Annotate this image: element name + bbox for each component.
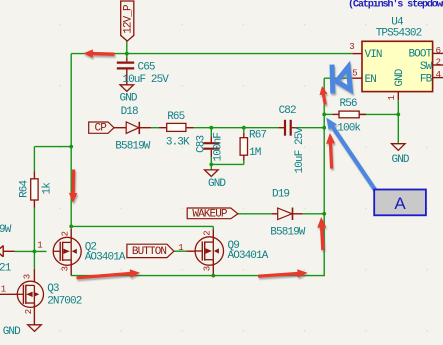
diode D19 (272, 208, 303, 221)
svg-text:CP: CP (95, 123, 108, 135)
wire R56 row (324, 113, 398, 115)
wire WAKEUP row seg2 (303, 213, 324, 215)
node junction 12V (125, 52, 129, 56)
value 100k (337, 123, 361, 135)
wire VIN rail (71, 53, 352, 55)
svg-text:3: 3 (23, 274, 33, 279)
svg-text:TPS54302: TPS54302 (376, 27, 422, 39)
svg-text:21: 21 (0, 263, 12, 275)
label Q2 (85, 241, 97, 253)
resistor R64 (31, 172, 38, 208)
svg-text:12V_P: 12V_P (123, 4, 135, 34)
ground Q3 (3, 325, 42, 338)
svg-text:R64: R64 (18, 179, 30, 197)
pin BOOT 6 (408, 46, 443, 61)
svg-text:100nF: 100nF (213, 133, 225, 162)
value AO3401A (85, 251, 126, 263)
svg-text:4: 4 (436, 70, 441, 80)
svg-text:BOOT: BOOT (408, 48, 432, 60)
capacitor C82 (279, 120, 297, 136)
label R56 (340, 98, 357, 110)
node junction U4 gnd (396, 113, 400, 117)
wire bottom rail (71, 275, 325, 277)
node junction gate rail (33, 250, 37, 254)
value AO3401A (Q9) (228, 250, 269, 262)
value 2N7002 (47, 295, 82, 307)
wire left vertical to Q2 (70, 54, 72, 229)
svg-text:10uF 25V: 10uF 25V (294, 127, 306, 174)
node junction R67 (242, 126, 246, 130)
svg-text:6: 6 (436, 46, 441, 56)
ground C83 (205, 170, 227, 190)
power flag 12V_P (121, 1, 135, 41)
value 3.3K (166, 136, 190, 148)
node junction Q9 bottom (211, 274, 215, 278)
transistor Q3 (0, 269, 44, 325)
wire R67 column + elbow (211, 128, 244, 165)
svg-text:BUTTON: BUTTON (132, 246, 167, 258)
annotation red arrow (R56 junction, pointing up) (326, 133, 335, 169)
pin SW 2 (420, 57, 443, 73)
wire Q3 column (33, 251, 35, 268)
svg-text:B5819W: B5819W (115, 140, 151, 152)
svg-text:AO3401A: AO3401A (85, 251, 126, 263)
wire C83 column (210, 128, 212, 170)
wire EN row (324, 77, 352, 79)
value B5819W (115, 140, 151, 152)
value 1M (249, 147, 261, 159)
svg-text:1: 1 (1, 284, 6, 294)
value 10uF 25V (122, 74, 169, 86)
resistor R56 (332, 111, 366, 118)
svg-text:GND: GND (120, 93, 138, 105)
pin 1 Q9 (178, 243, 183, 253)
svg-text:D19: D19 (272, 188, 289, 200)
svg-text:C82: C82 (279, 105, 296, 117)
annotation red arrow (EN, pointing up) (320, 86, 328, 105)
svg-text:C65: C65 (138, 61, 155, 73)
svg-text:1: 1 (178, 243, 183, 253)
value TPS54302 (376, 27, 422, 39)
annotation red arrow (R64 column, pointing down) (69, 170, 78, 204)
text title (clipped top) (348, 0, 443, 10)
wire top rail Q2-Q9 (71, 226, 213, 229)
wire BUTTON to Q9 (174, 250, 187, 252)
wire rail B horizontal (34, 146, 72, 148)
transistor Q9 (187, 229, 224, 275)
svg-text:3: 3 (202, 266, 212, 271)
wire WAKEUP row seg1 (238, 213, 272, 215)
svg-text:Q3: Q3 (47, 283, 59, 295)
value 1k (vertical) (41, 182, 53, 195)
svg-text:D18: D18 (121, 106, 138, 118)
wire R64 column upper (33, 147, 35, 172)
svg-text:C83: C83 (195, 135, 207, 152)
label C82 (279, 105, 296, 117)
svg-text:1: 1 (387, 95, 397, 100)
wire U4 gnd pin column (397, 100, 399, 143)
annotation box A (374, 190, 426, 216)
wire C82 right seg (297, 127, 324, 129)
svg-text:2N7002: 2N7002 (47, 295, 82, 307)
pin 3 Q9 (202, 266, 212, 271)
wire D18 row seg2 (194, 127, 279, 129)
ground C65 (120, 85, 138, 105)
pin FB 4 (420, 70, 443, 86)
svg-text:9W: 9W (0, 224, 12, 236)
label R64 (vertical) (18, 179, 30, 197)
label U4 (391, 17, 404, 29)
node junction R56 left (322, 113, 326, 117)
svg-text:GND: GND (392, 154, 410, 166)
label C65 (138, 61, 155, 73)
global label CP (89, 122, 114, 135)
ground R56 (392, 144, 410, 166)
svg-text:2: 2 (436, 57, 441, 67)
annotation red arrow (bottom rail right, pointing right) (258, 269, 308, 278)
svg-text:1k: 1k (41, 182, 53, 195)
svg-text:A: A (394, 194, 406, 213)
global label WAKEUP (187, 208, 238, 221)
annotation red arrow (D19 junction, pointing up) (317, 217, 326, 250)
annotation red arrow (VIN rail, pointing left) (83, 49, 114, 58)
svg-text:(Catpinsh's stepdown c: (Catpinsh's stepdown c (348, 0, 443, 10)
pin 3 Q3 (23, 274, 33, 279)
wire R64 column lower (33, 208, 35, 252)
text 9W (cut value) (0, 224, 12, 236)
wire 12V stem (126, 41, 128, 58)
pin EN 5 (352, 68, 376, 85)
svg-text:1M: 1M (249, 147, 261, 159)
value B5819W (D19) (270, 227, 306, 239)
node junction C83 top (209, 126, 213, 130)
svg-text:3: 3 (60, 266, 70, 271)
svg-text:2: 2 (202, 230, 212, 235)
wire D18 row seg1 (151, 127, 158, 129)
annotation blue skip icon (332, 65, 350, 94)
pin 1 Q3 (1, 284, 6, 294)
resistor R65 (159, 123, 194, 131)
resistor R67 (240, 133, 247, 161)
node junction rail B (69, 145, 73, 149)
annotation blue arrow to A (326, 118, 377, 192)
pin VIN 3 (349, 42, 382, 61)
capacitor C65 (117, 58, 134, 85)
value 10uF 25V (vertical) (294, 127, 306, 174)
label R65 (167, 111, 184, 123)
svg-text:3.3K: 3.3K (166, 136, 190, 148)
svg-text:EN: EN (365, 74, 377, 86)
diode D18 (114, 122, 151, 134)
text 21 (cut ref) (0, 263, 12, 275)
pin 3 Q2 (60, 266, 70, 271)
label D19 (272, 188, 289, 200)
node junction Q2 top (69, 225, 73, 229)
node junction C83 bottom (209, 163, 213, 167)
label Q9 (228, 240, 240, 252)
capacitor C83 (203, 136, 219, 157)
svg-text:R67: R67 (249, 130, 266, 142)
svg-text:WAKEUP: WAKEUP (192, 209, 228, 221)
svg-text:R56: R56 (340, 98, 357, 110)
svg-text:R65: R65 (167, 111, 184, 123)
transistor Q2 (53, 229, 81, 276)
op-amp U4 body (362, 41, 433, 91)
svg-text:5: 5 (352, 68, 357, 78)
value 100nF (vertical) (213, 133, 225, 162)
annotation red arrow (bottom rail left, pointing right) (76, 269, 140, 279)
svg-text:AO3401A: AO3401A (228, 250, 269, 262)
node junction D19 (322, 212, 326, 216)
svg-text:GND: GND (3, 326, 21, 338)
label R67 (249, 130, 266, 142)
svg-text:100k: 100k (337, 123, 361, 135)
global label BUTTON (127, 244, 174, 258)
pin 2 Q9 (202, 230, 212, 235)
pin GND 1 (387, 68, 406, 100)
svg-text:GND: GND (208, 178, 226, 190)
svg-text:FB: FB (420, 73, 433, 85)
svg-text:2: 2 (24, 309, 34, 314)
svg-text:SW: SW (420, 61, 433, 73)
net label tip (left edge) (0, 245, 15, 257)
svg-text:2: 2 (60, 231, 70, 236)
node junction C82 row (322, 126, 326, 130)
pin 2 Q2 (60, 231, 70, 236)
pin 1 Q2 (37, 241, 42, 251)
svg-text:B5819W: B5819W (270, 227, 306, 239)
label D18 (121, 106, 138, 118)
pin 2 Q3 (24, 309, 34, 314)
wire main vertical EN column (323, 78, 325, 275)
label C83 (vertical) (195, 135, 207, 152)
svg-text:10uF 25V: 10uF 25V (122, 74, 169, 86)
svg-text:GND: GND (394, 68, 406, 86)
wire gate rail Q2 (15, 250, 47, 252)
svg-text:1: 1 (37, 241, 42, 251)
svg-text:3: 3 (349, 42, 354, 52)
label Q3 (47, 283, 59, 295)
svg-text:VIN: VIN (365, 49, 382, 61)
